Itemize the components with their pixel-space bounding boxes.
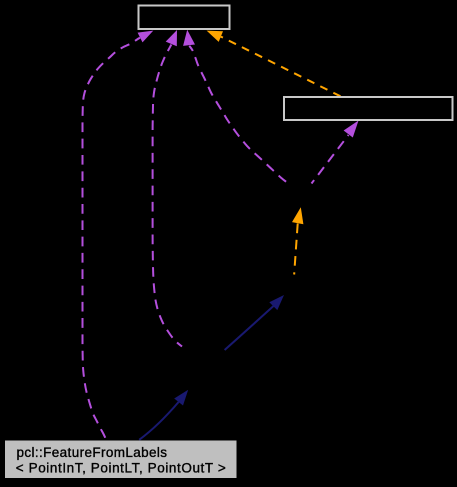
svg-text:< PointInT, PointLT, PointOutT: < PointInT, PointLT, PointOutT > [16,461,227,476]
svg-text:pcl::FeatureFromLabels: pcl::FeatureFromLabels [17,445,168,460]
